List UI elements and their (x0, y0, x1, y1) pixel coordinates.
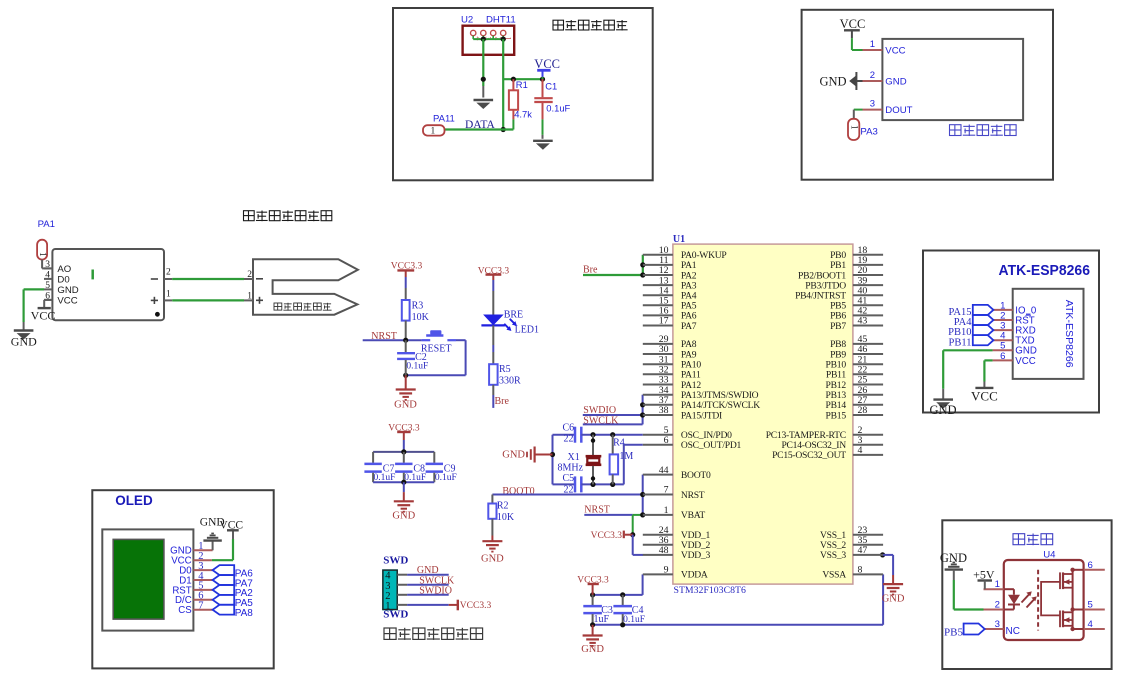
svg-text:GND: GND (394, 400, 417, 411)
svg-text:0.1uF: 0.1uF (435, 473, 457, 483)
svg-text:SWD: SWD (383, 609, 408, 621)
svg-text:330R: 330R (499, 375, 521, 386)
svg-text:R1: R1 (516, 79, 528, 90)
svg-text:5: 5 (1088, 600, 1093, 611)
svg-text:1: 1 (850, 125, 860, 130)
svg-text:VCC: VCC (534, 57, 560, 71)
svg-text:CS: CS (178, 605, 192, 616)
svg-text:4: 4 (858, 445, 863, 456)
svg-text:ATK-ESP8266: ATK-ESP8266 (999, 263, 1091, 279)
svg-text:PB5: PB5 (944, 626, 963, 638)
svg-text:GND: GND (929, 403, 956, 417)
svg-text:4.7k: 4.7k (514, 109, 532, 120)
svg-text:R2: R2 (497, 500, 509, 511)
svg-text:DOUT: DOUT (885, 105, 912, 116)
svg-text:7: 7 (664, 485, 669, 496)
svg-text:STM32F103C8T6: STM32F103C8T6 (674, 585, 747, 596)
svg-text:GND: GND (581, 644, 604, 655)
svg-text:VDD_3: VDD_3 (681, 550, 711, 561)
svg-text:GND: GND (882, 594, 905, 605)
svg-text:4: 4 (45, 270, 50, 280)
svg-text:2: 2 (247, 270, 252, 280)
svg-text:0.1uF: 0.1uF (406, 362, 428, 372)
svg-text:SWDIO: SWDIO (419, 585, 452, 596)
svg-text:BRE: BRE (504, 309, 523, 320)
svg-text:2: 2 (870, 70, 875, 81)
svg-text:PA15/JTDI: PA15/JTDI (681, 410, 722, 421)
svg-text:SWD: SWD (383, 554, 408, 566)
svg-text:Bre: Bre (583, 264, 598, 275)
svg-text:1: 1 (166, 289, 171, 299)
svg-text:17: 17 (659, 316, 669, 327)
svg-text:C5: C5 (563, 473, 575, 484)
svg-text:C6: C6 (563, 422, 575, 433)
svg-text:VCC: VCC (885, 45, 905, 56)
svg-text:D0: D0 (57, 274, 69, 285)
svg-text:VCC: VCC (57, 295, 77, 306)
svg-text:GND: GND (481, 554, 504, 565)
svg-text:PB15: PB15 (826, 410, 847, 421)
svg-text:U1: U1 (673, 234, 685, 245)
svg-text:4: 4 (1088, 619, 1094, 630)
svg-text:GND: GND (502, 450, 525, 461)
svg-text:0.1uF: 0.1uF (623, 615, 645, 625)
svg-text:OSC_OUT/PD1: OSC_OUT/PD1 (681, 440, 742, 451)
svg-text:2: 2 (166, 268, 171, 278)
svg-text:PB11: PB11 (949, 337, 972, 348)
svg-text:5: 5 (45, 281, 50, 291)
svg-text:LED1: LED1 (515, 324, 539, 335)
svg-text:PA3: PA3 (860, 127, 877, 138)
svg-text:0.1uF: 0.1uF (404, 473, 426, 483)
svg-text:9: 9 (664, 565, 669, 576)
svg-text:GND: GND (392, 511, 415, 522)
svg-text:GND: GND (820, 75, 847, 89)
svg-text:44: 44 (659, 465, 669, 476)
svg-text:AO: AO (57, 264, 71, 275)
svg-text:DATA: DATA (465, 119, 495, 131)
svg-text:48: 48 (659, 545, 669, 556)
svg-text:PA11: PA11 (433, 114, 455, 125)
svg-text:VCC: VCC (219, 519, 243, 531)
svg-text:PA7: PA7 (681, 321, 697, 332)
svg-text:VCC: VCC (1015, 356, 1035, 367)
svg-text:8MHz: 8MHz (558, 462, 584, 473)
svg-text:U2: U2 (461, 15, 473, 26)
svg-text:BOOT0: BOOT0 (681, 470, 711, 481)
svg-text:1M: 1M (619, 451, 633, 462)
svg-text:38: 38 (659, 405, 669, 416)
svg-text:1: 1 (870, 39, 875, 50)
svg-text:1: 1 (995, 579, 1000, 590)
svg-text:VCC3.3: VCC3.3 (591, 531, 623, 541)
svg-text:0.1uF: 0.1uF (546, 103, 570, 114)
svg-text:NRST: NRST (584, 505, 610, 516)
svg-text:VBAT: VBAT (681, 510, 705, 521)
svg-text:PA8: PA8 (235, 608, 254, 619)
svg-text:3: 3 (870, 99, 875, 110)
svg-text:VCC: VCC (971, 389, 998, 404)
svg-text:OLED: OLED (115, 493, 153, 508)
svg-text:GND: GND (885, 76, 906, 87)
svg-text:6: 6 (664, 435, 669, 446)
svg-text:GND: GND (11, 335, 37, 349)
svg-text:1uF: 1uF (594, 614, 610, 625)
svg-text:DHT11: DHT11 (486, 15, 516, 26)
svg-text:47: 47 (858, 545, 868, 556)
svg-text:R3: R3 (412, 300, 424, 311)
svg-text:NC: NC (1006, 626, 1020, 637)
svg-text:0.1uF: 0.1uF (374, 473, 396, 483)
svg-text:C1: C1 (545, 81, 557, 92)
svg-text:VCC: VCC (31, 309, 56, 323)
svg-text:ATK-ESP8266: ATK-ESP8266 (1063, 300, 1075, 368)
svg-text:1: 1 (431, 127, 436, 137)
svg-text:NRST: NRST (681, 490, 705, 501)
svg-text:10K: 10K (497, 512, 515, 523)
svg-text:X1: X1 (568, 452, 580, 463)
svg-text:VCC: VCC (840, 17, 866, 31)
svg-text:1: 1 (37, 252, 47, 257)
svg-text:VSSA: VSSA (822, 570, 846, 581)
svg-text:VSS_3: VSS_3 (820, 550, 846, 561)
svg-text:VCC3.3: VCC3.3 (460, 601, 492, 611)
svg-text:PB7: PB7 (830, 321, 846, 332)
svg-text:22: 22 (564, 433, 574, 444)
svg-text:1: 1 (664, 505, 669, 516)
svg-text:8: 8 (858, 565, 863, 576)
svg-text:3: 3 (995, 619, 1000, 630)
svg-text:VDDA: VDDA (681, 570, 708, 581)
svg-text:43: 43 (858, 316, 868, 327)
svg-text:6: 6 (1000, 351, 1005, 362)
svg-text:1: 1 (247, 292, 252, 302)
svg-text:PA1: PA1 (38, 219, 55, 230)
svg-text:28: 28 (858, 405, 868, 416)
svg-text:PC15-OSC32_OUT: PC15-OSC32_OUT (772, 450, 846, 461)
svg-text:6: 6 (1088, 560, 1093, 571)
svg-text:GND: GND (57, 285, 78, 296)
svg-text:Bre: Bre (495, 396, 510, 407)
svg-text:10K: 10K (412, 312, 430, 323)
svg-text:R5: R5 (499, 364, 511, 375)
svg-text:2: 2 (995, 600, 1000, 611)
